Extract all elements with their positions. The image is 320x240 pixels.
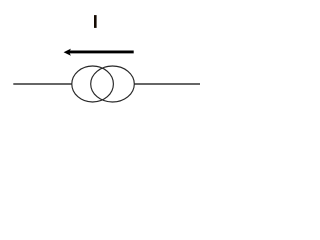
- current source I1 right circle: [91, 66, 135, 102]
- current source I1 left circle: [72, 66, 114, 102]
- current direction arrow shaft: [69, 50, 134, 53]
- wire right segment: [135, 83, 201, 85]
- label I (current): [94, 15, 97, 28]
- current direction arrow head: [64, 49, 71, 56]
- wire left segment: [13, 83, 71, 85]
